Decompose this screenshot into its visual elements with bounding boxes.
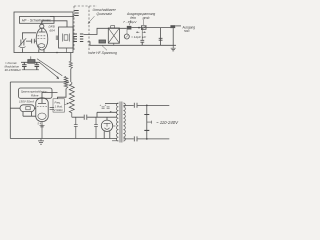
svg-text:Spannungsstabilisator-: Spannungsstabilisator- — [21, 90, 47, 94]
svg-text:Freq.: Freq. — [55, 101, 62, 105]
svg-text:HF - Schwingkreis: HF - Schwingkreis — [22, 19, 51, 23]
svg-text:≈ 12µF: ≈ 12µF — [131, 35, 142, 39]
svg-text:grob: grob — [143, 16, 150, 20]
svg-text:7 - 350µV: 7 - 350µV — [123, 20, 137, 24]
svg-text:5 4: 5 4 — [38, 122, 42, 126]
svg-text:Quarzsatz: Quarzsatz — [97, 12, 113, 16]
svg-text:150V 50mA: 150V 50mA — [19, 100, 34, 104]
svg-text:Röhre: Röhre — [31, 93, 39, 97]
svg-text:Ausgangsspannung: Ausgangsspannung — [126, 12, 155, 16]
svg-text:1 Mod.: 1 Mod. — [55, 104, 63, 108]
svg-text:+: + — [100, 103, 102, 107]
svg-text:30-15000Hz: 30-15000Hz — [5, 68, 22, 72]
svg-text:50Ω: 50Ω — [184, 29, 190, 33]
svg-text:604: 604 — [50, 28, 55, 32]
svg-text:+: + — [105, 103, 107, 107]
svg-text:2 Gitter: 2 Gitter — [53, 108, 63, 112]
svg-text:hohe HF-Spannung: hohe HF-Spannung — [88, 51, 117, 55]
svg-text:~ 110-240V: ~ 110-240V — [156, 120, 179, 125]
